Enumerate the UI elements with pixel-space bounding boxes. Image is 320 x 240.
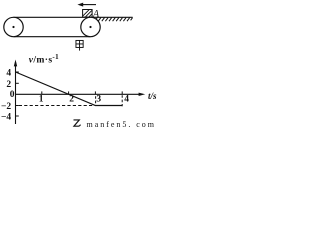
x-axis tick t=2	[68, 91, 70, 94]
x-axis tick t=3	[94, 91, 96, 94]
velocity arrow above block A	[77, 3, 96, 7]
dashed line v=-2	[19, 105, 95, 107]
v-t graph line	[16, 72, 123, 106]
svg-text:0: 0	[10, 90, 15, 100]
y-axis tick v=2	[16, 82, 19, 84]
x-axis	[16, 93, 146, 96]
ground hatching	[95, 18, 133, 22]
y-axis	[14, 60, 17, 125]
svg-text:−2: −2	[1, 102, 11, 112]
label yi (caption of graph)	[74, 120, 81, 126]
right pulley	[81, 17, 100, 36]
svg-text:t/s: t/s	[148, 91, 157, 101]
svg-text:−4: −4	[1, 113, 11, 123]
y-axis tick v=4	[16, 71, 19, 73]
platform surface line	[91, 16, 133, 18]
dashed vertical t=4	[121, 95, 123, 106]
svg-text:2: 2	[6, 80, 11, 90]
conveyor belt top line	[14, 16, 91, 18]
label jia (caption of top figure)	[76, 40, 83, 50]
svg-text:4: 4	[6, 69, 11, 79]
block A (hatched)	[83, 10, 93, 18]
dashed vertical t=3	[95, 96, 97, 105]
svg-text:4: 4	[124, 95, 129, 105]
x-axis tick t=1	[41, 91, 43, 94]
svg-text:2: 2	[69, 95, 74, 105]
left pulley	[4, 17, 23, 36]
y-axis tick v=-2	[16, 105, 19, 107]
svg-text:1: 1	[39, 95, 44, 105]
conveyor belt bottom line	[14, 36, 91, 38]
y-axis tick v=-4	[16, 115, 19, 117]
x-axis tick t=4	[121, 91, 123, 94]
svg-text:3: 3	[96, 95, 101, 105]
